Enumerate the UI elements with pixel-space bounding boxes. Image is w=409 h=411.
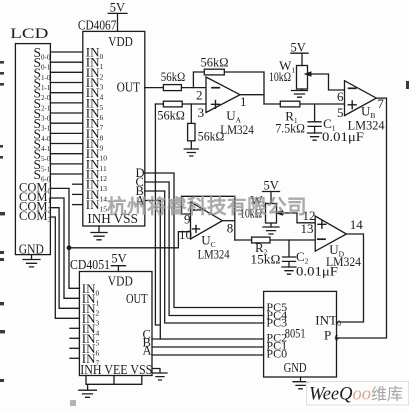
wire S4-0 to IN8 <box>50 132 82 134</box>
svg-text:5: 5 <box>337 105 344 120</box>
wire UC pin10 <box>69 232 191 248</box>
wire COM0 to CD4051 IN0 <box>50 188 79 288</box>
op-amp UC <box>191 202 223 239</box>
ground CD4051 VSS right <box>152 369 167 381</box>
wire pulldown <box>190 104 192 149</box>
wire CD4067 OUT to R 56k pin2 <box>145 87 206 89</box>
op-amp designators <box>198 104 385 269</box>
COM labels <box>19 180 51 224</box>
wire S0-1 to IN1 <box>50 61 82 63</box>
svg-text:COM3: COM3 <box>19 209 51 224</box>
wire S4-1 to IN9 <box>50 143 82 145</box>
svg-text:杭州将睿科技有限公司: 杭州将睿科技有限公司 <box>107 196 307 218</box>
op-amp UD <box>315 216 346 251</box>
wiper W1 <box>311 74 345 90</box>
svg-text:CD4067: CD4067 <box>78 18 117 33</box>
8051 block <box>264 291 337 377</box>
resistor 56k input pin2 <box>163 85 181 91</box>
resistor 56k pulldown <box>188 123 195 140</box>
svg-text:10: 10 <box>179 227 192 242</box>
wire S2-0 to IN4 <box>50 92 82 94</box>
svg-text:7.5kΩ: 7.5kΩ <box>275 121 305 136</box>
resistor R1 <box>280 101 300 107</box>
svg-text:56kΩ: 56kΩ <box>161 69 186 84</box>
wire UC pin9 feedback <box>182 196 235 240</box>
wire CD4051 B to PC1 <box>152 346 264 348</box>
ground pulldown <box>184 149 198 156</box>
wire COM3 to CD4051 IN3 <box>50 217 79 318</box>
stub CD4051 IN5 <box>70 337 80 339</box>
stub IN13 <box>73 183 83 185</box>
5V rail CD4067 <box>108 13 127 31</box>
5V rail W2 <box>263 192 280 204</box>
wire CD4051 A to PC0 <box>152 354 264 356</box>
svg-text:3: 3 <box>198 105 205 120</box>
svg-text:56kΩ: 56kΩ <box>201 54 229 69</box>
op-amp pin number labels <box>179 88 384 242</box>
svg-text:CD4051: CD4051 <box>70 257 110 272</box>
select bus A <box>145 201 161 340</box>
svg-text:0.01μF: 0.01μF <box>296 263 338 278</box>
wire S5-1 to IN11 <box>50 163 82 165</box>
stub CD4051 IN6 <box>70 347 80 349</box>
component value labels <box>157 41 364 279</box>
svg-text:10kΩ: 10kΩ <box>269 69 291 84</box>
svg-text:VDD: VDD <box>108 274 133 289</box>
svg-text:5V: 5V <box>111 251 126 265</box>
ground 8051 <box>293 377 308 389</box>
ground CD4051 bottom <box>79 376 142 398</box>
CD4067 block <box>83 31 145 226</box>
wire S1-1 to IN3 <box>50 82 82 84</box>
wire 56k tap vertical <box>155 104 160 325</box>
wire S3-1 to IN7 <box>50 122 82 124</box>
wiper W2 <box>284 213 315 223</box>
select bus D <box>145 173 264 308</box>
svg-text:VDD: VDD <box>108 35 133 50</box>
svg-text:OUT: OUT <box>126 291 148 306</box>
svg-text:13: 13 <box>301 221 314 236</box>
svg-text:GND: GND <box>284 361 307 376</box>
svg-text:6: 6 <box>337 89 344 104</box>
stub CD4051 IN7 <box>70 357 80 359</box>
5V rail CD4051 <box>111 266 125 272</box>
CD4067 select labels <box>136 166 145 208</box>
svg-text:P: P <box>324 328 331 343</box>
svg-text:A: A <box>143 344 152 358</box>
svg-text:LCD: LCD <box>10 26 48 42</box>
wire pin3 row <box>155 103 206 105</box>
stub IN14 <box>73 193 83 195</box>
ground W1 <box>292 91 308 98</box>
potentiometer W2 <box>266 204 277 224</box>
wire R1 row <box>264 103 345 105</box>
svg-text:56kΩ: 56kΩ <box>157 108 185 123</box>
svg-text:6: 6 <box>335 334 339 343</box>
wire S5-0 to IN10 <box>50 153 82 155</box>
potentiometer W1 <box>297 66 308 90</box>
svg-text:PC0: PC0 <box>266 347 287 361</box>
wire COM1 to CD4051 IN1 <box>50 198 79 298</box>
svg-text:1: 1 <box>240 94 247 109</box>
svg-text:8: 8 <box>227 220 234 235</box>
S pin labels <box>34 45 51 184</box>
svg-text:LM324: LM324 <box>220 122 254 137</box>
CD4051 select labels <box>143 328 152 358</box>
svg-text:PC3: PC3 <box>266 316 287 330</box>
resistor 56k input pin3 <box>163 101 182 107</box>
ground C2 <box>282 267 296 274</box>
svg-text:GND: GND <box>19 242 44 257</box>
wire UC output <box>222 220 234 222</box>
svg-text:5V: 5V <box>110 1 125 15</box>
wire S6-0 to IN12 <box>50 173 82 175</box>
select bus C <box>145 182 264 316</box>
stub CD4051 IN4 <box>70 327 80 329</box>
svg-text:WeeQoo维库: WeeQoo维库 <box>309 385 403 405</box>
wire feedback top <box>193 72 264 104</box>
wire S0-0 to IN0 <box>50 51 82 53</box>
svg-text:7: 7 <box>377 96 384 111</box>
svg-text:OUT: OUT <box>117 80 141 95</box>
op-amp UB <box>345 81 377 116</box>
wire UA output <box>240 94 264 96</box>
svg-text:0.01μF: 0.01μF <box>322 129 364 144</box>
CD4051 block <box>79 272 152 376</box>
wire S3-0 to IN6 <box>50 112 82 114</box>
ground C1 <box>308 133 322 140</box>
capacitor C1 <box>308 104 321 133</box>
wire R2 row <box>235 239 315 241</box>
5V rail W1 <box>291 52 308 54</box>
svg-text:2: 2 <box>196 88 203 103</box>
select bus B <box>145 191 264 323</box>
wire COM2 to CD4051 IN2 <box>50 208 79 309</box>
wire UD out to INT0 <box>337 234 364 322</box>
resistor 56k feedback <box>204 69 224 75</box>
svg-text:15kΩ: 15kΩ <box>250 252 280 267</box>
resistor R2 <box>252 237 270 243</box>
svg-text:56kΩ: 56kΩ <box>198 129 225 144</box>
op-amp UA <box>206 77 240 113</box>
ground CD4067 VSS <box>91 226 107 240</box>
wire UB out to P6 <box>337 98 387 338</box>
ground LCD <box>23 255 40 267</box>
svg-text:5V: 5V <box>291 41 306 55</box>
svg-text:8051: 8051 <box>285 325 306 340</box>
junction node COM0 tap <box>67 245 72 250</box>
wire S2-1 to IN5 <box>50 102 82 104</box>
8051 PC labels <box>266 300 287 361</box>
CD4051 IN labels <box>82 281 100 368</box>
stub IN15 <box>73 204 83 206</box>
svg-text:14: 14 <box>350 217 364 232</box>
ground W2 <box>263 227 279 234</box>
wire CD4051 C to PC2 <box>152 338 264 340</box>
svg-text:LM324: LM324 <box>198 247 230 262</box>
watermark weeqoo box <box>307 382 409 406</box>
wire S1-0 to IN2 <box>50 71 82 73</box>
CD4067 IN labels <box>86 45 107 214</box>
capacitor C2 <box>283 240 296 267</box>
svg-text:5V: 5V <box>264 179 279 193</box>
LCD block <box>15 44 50 255</box>
